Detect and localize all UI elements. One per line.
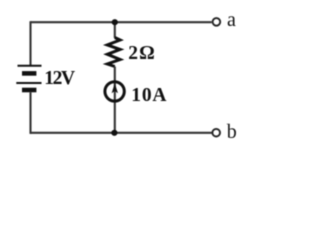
resistor R (2 ohm) zigzag (107, 38, 120, 67)
svg-text:10A: 10A (131, 85, 166, 106)
wire: middle branch vertical, top dot to resistor (114, 22, 116, 38)
svg-text:2Ω: 2Ω (128, 43, 154, 64)
svg-text:12V: 12V (44, 68, 75, 89)
wire: middle branch vertical through current source to bottom dot (114, 67, 116, 133)
svg-text:a: a (227, 9, 236, 31)
terminal b open circle (212, 129, 220, 137)
terminal a open circle (213, 18, 221, 26)
battery B1 plate 2 (short thick, -) (22, 71, 36, 76)
svg-text:b: b (227, 121, 237, 143)
wire: bottom horizontal from left corner to terminal b (31, 132, 212, 134)
battery B1 plate 1 (long thin, +) (18, 65, 42, 67)
current source CS (10A) circle (105, 82, 124, 101)
wire: left vertical from top corner down to battery top plate (29, 21, 31, 65)
junction dot, top node (112, 19, 118, 25)
battery B1 plate 4 (short thick, -) (22, 88, 36, 93)
wire: left vertical from battery bottom to bottom-left corner (29, 92, 31, 134)
junction dot, bottom node (111, 130, 117, 136)
current source arrowhead (points up) (112, 83, 118, 93)
wire: top horizontal from left corner to terminal a (31, 21, 212, 23)
battery B1 plate 3 (long thin, +) (16, 82, 41, 84)
